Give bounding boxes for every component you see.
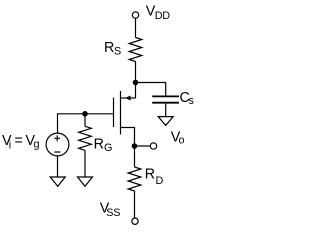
- wire source to ground: [57, 156, 59, 177]
- capacitor Cs: [152, 95, 179, 97]
- source Vg circle: [46, 133, 69, 156]
- wire RS to source node: [135, 62, 137, 99]
- svg-text:R: R: [94, 136, 104, 152]
- svg-text:R: R: [145, 166, 155, 182]
- svg-text:D: D: [156, 175, 164, 187]
- node gate junction: [82, 111, 88, 117]
- node source junction: [133, 80, 139, 86]
- wire source node to capacitor: [136, 83, 166, 96]
- svg-text:g: g: [34, 139, 40, 151]
- wire RD to VSS terminal: [134, 191, 136, 218]
- svg-text:i: i: [9, 140, 11, 152]
- svg-text:R: R: [104, 40, 114, 56]
- svg-text:SS: SS: [106, 207, 120, 219]
- node drain junction: [132, 143, 138, 149]
- terminal Vo: [150, 143, 156, 149]
- svg-text:S: S: [114, 46, 121, 58]
- resistor RS: [129, 38, 142, 62]
- ground (RG): [78, 177, 93, 186]
- plus sign: [54, 135, 60, 141]
- transistor M1 source lead: [121, 97, 136, 99]
- svg-text:G: G: [104, 142, 112, 154]
- transistor M1 drain lead: [121, 128, 135, 147]
- transistor M1 channel: [120, 91, 122, 134]
- resistor RD: [128, 167, 141, 191]
- wire drain to Vo terminal: [135, 145, 151, 147]
- wire RG to ground: [84, 150, 86, 177]
- transistor M1 gate bar: [113, 98, 115, 128]
- terminal VSS: [132, 218, 138, 224]
- svg-text:=: =: [15, 133, 23, 149]
- ground (capacitor): [158, 117, 173, 126]
- resistor RG: [79, 126, 92, 150]
- transistor M1 arrow: [125, 96, 130, 101]
- wire RG top: [84, 114, 86, 127]
- svg-text:DD: DD: [155, 10, 170, 22]
- wire drain to RD: [134, 146, 136, 167]
- wire gate net: [58, 114, 114, 133]
- minus sign: [54, 151, 60, 153]
- wire capacitor to ground: [165, 104, 167, 117]
- svg-text:o: o: [179, 135, 185, 147]
- terminal VDD: [132, 12, 138, 18]
- wire VDD to RS: [135, 18, 137, 37]
- ground (source): [50, 177, 65, 186]
- svg-text:s: s: [189, 95, 195, 107]
